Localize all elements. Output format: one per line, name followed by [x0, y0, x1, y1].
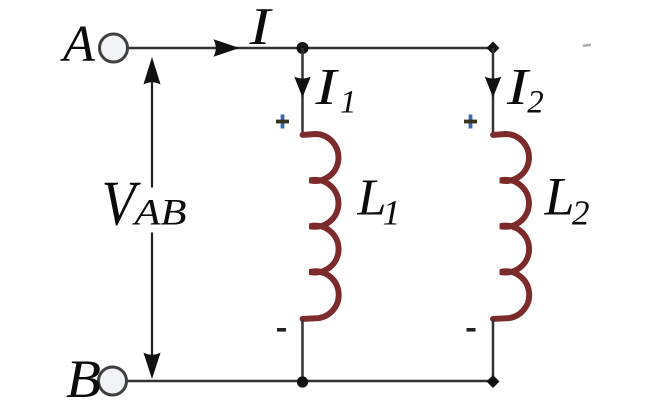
svg-text:I: I [248, 0, 273, 56]
polarity - for L2 [467, 328, 476, 332]
current arrow I2 [485, 77, 502, 98]
svg-text:A: A [60, 16, 95, 73]
svg-text:L: L [544, 167, 575, 227]
junction: node 2 top (L2 branch end) [487, 42, 500, 55]
svg-text:1: 1 [383, 193, 401, 233]
terminal B [99, 367, 127, 395]
wire: L2 top lead (node 2 to L2) [492, 48, 495, 136]
terminal A [100, 34, 128, 62]
current arrow I1 [294, 77, 311, 98]
wire: top horizontal from terminal A to node 2 [125, 47, 493, 50]
wire: L2 bottom lead (L2 to node 4) [492, 320, 495, 382]
voltage arrow V_AB: upper line segment [151, 82, 153, 188]
polarity + for L2 [464, 115, 477, 129]
wire: bottom horizontal from terminal B to node 4 [126, 380, 493, 383]
inductor L2 [493, 134, 529, 319]
junction: node 4 bottom (L2 branch end) [487, 375, 500, 388]
current arrow I on top wire [214, 39, 240, 57]
svg-text:I: I [314, 59, 339, 116]
svg-text:2: 2 [572, 194, 590, 233]
svg-text:AB: AB [131, 193, 186, 234]
scan artifact mark top right [583, 43, 591, 47]
voltage arrow V_AB: lower line segment [151, 233, 153, 357]
svg-text:2: 2 [527, 85, 544, 121]
wire: L1 top lead (node 1 to L1) [301, 48, 304, 135]
svg-text:B: B [66, 349, 101, 405]
junction: node 1 top (L1 branch tap) [297, 42, 309, 54]
voltage arrow V_AB: down arrowhead [143, 353, 160, 380]
wire: L1 bottom lead (L1 to node 3) [301, 320, 304, 382]
polarity - for L1 [277, 328, 286, 332]
svg-text:1: 1 [340, 85, 357, 121]
voltage arrow V_AB: up arrowhead [143, 57, 160, 85]
junction: node 3 bottom (L1 branch) [297, 376, 308, 387]
inductor L1 [303, 134, 339, 319]
polarity + for L1 [276, 115, 289, 129]
